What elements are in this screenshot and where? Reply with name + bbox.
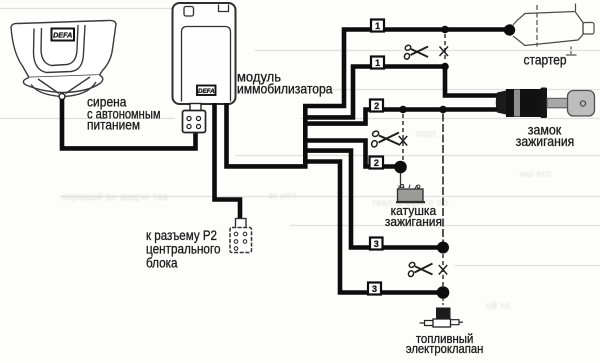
svg-text:1: 1 (375, 58, 380, 68)
junction node small 1a (441, 26, 449, 34)
label fuel valve (406, 331, 484, 356)
svg-text:ой тл: ой тл (486, 301, 510, 312)
scissors 3 (408, 262, 433, 278)
junction node big coil (394, 161, 407, 174)
original harness line lock-to-coil-to-valve (442, 114, 444, 242)
fuel valve Y1 (420, 308, 464, 328)
junction node small 1b (441, 63, 449, 71)
wire branch 3a (303, 151, 440, 248)
svg-text:электроклапан: электроклапан (406, 341, 484, 356)
svg-text:поравшй ве ашдчо тва: поравшй ве ашдчо тва (62, 192, 168, 203)
wire module to P2 connector (215, 103, 241, 221)
connector C1 (4-pin below module) (183, 104, 206, 133)
connector P2 (230, 219, 252, 253)
svg-text:зажигания: зажигания (385, 214, 442, 229)
tag 3 (branch 3a) (370, 238, 383, 250)
tag 2 (branch 2b) (370, 157, 384, 169)
bleed-through ghost text (62, 129, 551, 312)
junction node small 2a-right (439, 106, 447, 114)
scissors 2 (371, 130, 399, 148)
siren terminal (59, 94, 65, 100)
svg-text:1: 1 (375, 21, 380, 31)
cut X mark 3 (439, 265, 447, 275)
wire siren to connector C1 (62, 99, 196, 148)
svg-text:горл: горл (416, 129, 436, 140)
siren DEFA logo (52, 29, 75, 41)
immobilizer module U1 (173, 3, 236, 104)
cut X mark 1 (440, 47, 449, 57)
cut X mark 2 (399, 136, 407, 146)
svg-text:питанием: питанием (87, 117, 140, 133)
svg-text:2: 2 (374, 158, 379, 168)
tag 3 (branch 3b) (368, 283, 381, 295)
svg-text:2: 2 (374, 101, 379, 111)
wire branch 2a to ignition lock (303, 110, 498, 124)
junction node big 3a (437, 242, 449, 254)
tag 1 (branch 1a) (371, 20, 384, 32)
tag 1 (branch 1b) (371, 57, 384, 69)
svg-text:стартер: стартер (524, 53, 567, 68)
label ignition lock (516, 123, 575, 150)
starter terminal node (504, 24, 515, 35)
svg-text:DEFA: DEFA (53, 31, 72, 40)
svg-text:нш егл: нш егл (520, 169, 551, 180)
svg-text:блока: блока (146, 256, 178, 271)
wire module bundle + branch 1a to starter (227, 30, 507, 167)
junction node small 2a-left (399, 106, 407, 114)
wire branch 2b to coil junction (303, 141, 397, 167)
svg-text:иммобилизатора: иммобилизатора (237, 81, 333, 97)
ignition coil T1 (396, 173, 425, 202)
dashed cut line 1 (starter wire) (444, 34, 446, 62)
ignition lock S1 (496, 88, 595, 119)
svg-text:центрального: центрального (146, 242, 221, 257)
label ignition coil (385, 203, 442, 229)
siren SR1 body (11, 20, 116, 96)
svg-text:3: 3 (374, 239, 379, 249)
label module (237, 69, 333, 97)
svg-text:зс итл: зс итл (268, 191, 296, 202)
scan artifact faint lines (0, 9, 600, 266)
svg-text:DEFA: DEFA (198, 88, 215, 95)
module DEFA label (197, 86, 216, 96)
dashed cut line 3 (valve wire) (442, 254, 444, 287)
label P2 (146, 228, 221, 271)
tag 2 (branch 2a) (370, 100, 383, 112)
dotted lead to valve (442, 299, 444, 307)
dashed cut line 2 (coil wire) (402, 114, 404, 160)
wire branch 1b to ignition lock (303, 67, 498, 118)
wire branch 3b (303, 162, 440, 293)
scissors 1 (404, 44, 428, 60)
svg-text:зажигания: зажигания (516, 134, 575, 149)
starter M1 outline (513, 4, 594, 56)
junction node big 3b (437, 286, 450, 299)
label siren (87, 93, 161, 132)
svg-text:3: 3 (372, 284, 377, 294)
